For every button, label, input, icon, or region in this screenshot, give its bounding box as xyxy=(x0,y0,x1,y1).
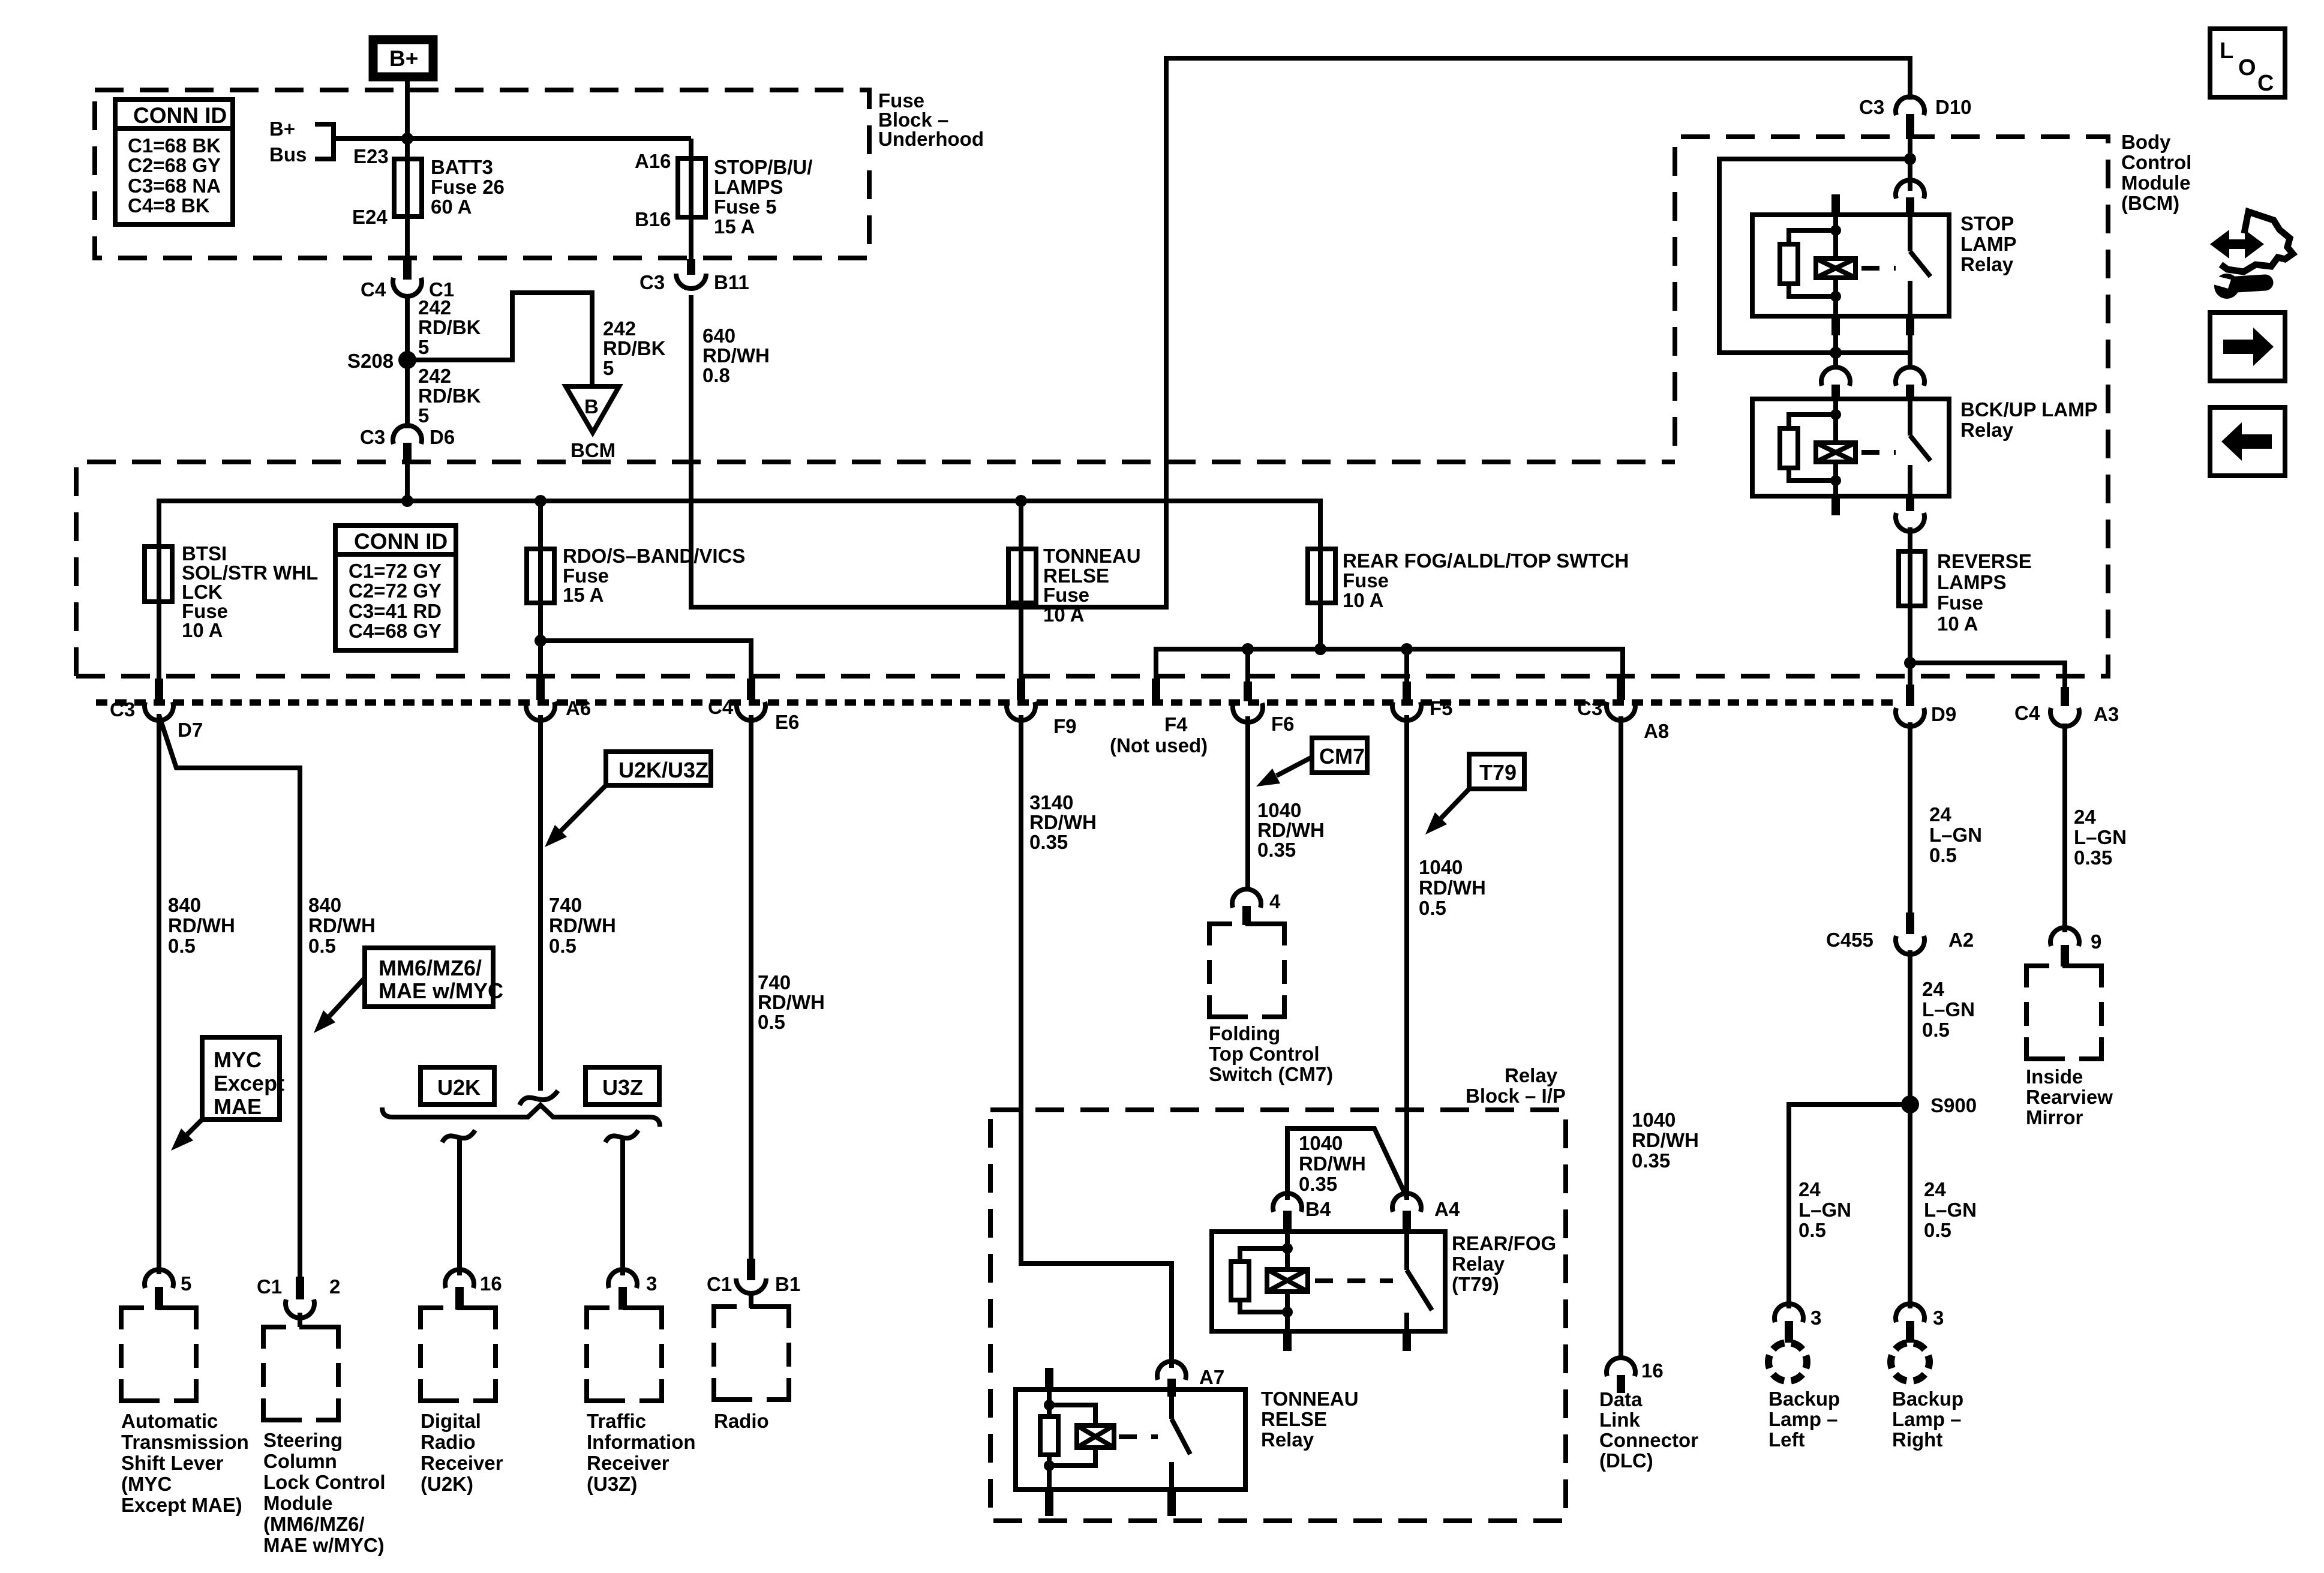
svg-text:1040: 1040 xyxy=(1632,1109,1676,1131)
svg-text:B: B xyxy=(584,395,599,418)
svg-text:1040: 1040 xyxy=(1419,856,1463,878)
svg-text:A4: A4 xyxy=(1434,1198,1460,1220)
svg-text:10 A: 10 A xyxy=(182,619,223,641)
svg-text:1040: 1040 xyxy=(1299,1132,1343,1154)
connector F5 xyxy=(1392,682,1453,721)
svg-text:C455: C455 xyxy=(1826,929,1873,951)
connector D9 xyxy=(1896,685,1956,727)
wire S208 branch to BCM B triangle xyxy=(407,293,592,386)
svg-text:C4: C4 xyxy=(361,278,386,301)
wire coil feed inside xyxy=(1833,399,1838,443)
wire S208 to connector C3/D6 xyxy=(405,360,410,428)
svg-text:0.35: 0.35 xyxy=(1029,831,1068,853)
svg-text:RD/WH: RD/WH xyxy=(1632,1129,1699,1151)
wire resistor bottom xyxy=(1240,1300,1287,1312)
svg-text:RD/WH: RD/WH xyxy=(308,914,376,936)
actuator dashed line xyxy=(1119,1434,1158,1439)
svg-text:Relay: Relay xyxy=(1452,1253,1505,1275)
wire branch F5 to B4 xyxy=(1287,1128,1407,1200)
wire into steering column module xyxy=(298,1313,302,1327)
svg-text:0.5: 0.5 xyxy=(1924,1219,1951,1241)
svg-text:C2=72 GY: C2=72 GY xyxy=(349,580,442,602)
wire BTSI fuse to connector D7 xyxy=(157,501,161,679)
junction coil bottom xyxy=(1830,475,1841,486)
coil (relay TONNEAU) xyxy=(1077,1425,1114,1448)
svg-text:10 A: 10 A xyxy=(1937,613,1978,635)
component Folding Top Control Switch (CM7) dashed box xyxy=(1209,924,1333,1085)
svg-text:MM6/MZ6/: MM6/MZ6/ xyxy=(379,956,482,980)
svg-text:Top Control: Top Control xyxy=(1209,1043,1320,1065)
label 640 RD/WH 0.8 xyxy=(702,325,770,386)
label 740 RD/WH 0.5 (A6 wire) xyxy=(549,894,616,957)
power symbol B+ xyxy=(373,40,433,77)
pin coil bottom xyxy=(1831,496,1840,515)
svg-text:C3: C3 xyxy=(639,271,665,293)
wire TONNEAU fuse down to F9 xyxy=(1019,501,1023,679)
junction loop at BCK/UP coil feed xyxy=(1830,347,1842,359)
svg-text:Steering: Steering xyxy=(263,1429,343,1451)
svg-text:C3: C3 xyxy=(1859,96,1884,118)
svg-text:A2: A2 xyxy=(1948,929,1974,951)
svg-text:MAE w/MYC: MAE w/MYC xyxy=(379,978,503,1003)
callout U2K xyxy=(421,1067,494,1104)
wire D9 to S900 xyxy=(1908,722,1912,914)
svg-text:(MM6/MZ6/: (MM6/MZ6/ xyxy=(263,1513,365,1535)
wire F6 drop xyxy=(1245,649,1250,682)
pin F4 (Not used) xyxy=(1110,679,1208,757)
svg-text:10 A: 10 A xyxy=(1343,589,1383,611)
wire A6 740 down to split xyxy=(538,715,543,1091)
switch (relay TONNEAU) xyxy=(1172,1397,1190,1490)
label 242 RD/BK 5 (branch to BCM) xyxy=(603,317,666,379)
svg-text:F5: F5 xyxy=(1430,697,1453,719)
svg-text:4: 4 xyxy=(1269,890,1281,912)
junction coil top xyxy=(1830,225,1841,236)
svg-text:0.35: 0.35 xyxy=(2074,846,2112,869)
connector B4 xyxy=(1273,1193,1331,1233)
relay TONNEAU RELSE xyxy=(1016,1368,1359,1516)
table CONN ID (I/P fuse block) xyxy=(335,526,456,650)
label 1040 RD/WH 0.35 (DLC wire) xyxy=(1632,1109,1699,1172)
svg-text:Bus: Bus xyxy=(269,143,307,166)
svg-text:Automatic: Automatic xyxy=(121,1410,218,1432)
wire B11 to BCM D10 (long route) xyxy=(691,58,1910,607)
svg-text:Rearview: Rearview xyxy=(2026,1086,2113,1108)
svg-text:Mirror: Mirror xyxy=(2026,1106,2083,1128)
svg-text:242: 242 xyxy=(603,317,636,340)
svg-text:L–GN: L–GN xyxy=(1922,998,1975,1020)
svg-text:Right: Right xyxy=(1892,1428,1942,1451)
svg-text:Radio: Radio xyxy=(421,1431,476,1453)
connector F6 xyxy=(1233,682,1295,735)
svg-text:C4=8 BK: C4=8 BK xyxy=(128,194,210,217)
wire branch to A3 xyxy=(1910,663,2065,687)
svg-text:RD/BK: RD/BK xyxy=(603,337,666,359)
svg-text:RD/WH: RD/WH xyxy=(1257,819,1325,841)
svg-text:STOP: STOP xyxy=(1960,212,2014,235)
label 24 L-GN 0.5 (right lamp) xyxy=(1924,1178,1977,1241)
svg-text:B11: B11 xyxy=(714,271,749,293)
relay BCK/UP LAMP xyxy=(1752,398,2098,515)
fuse REVERSE LAMPS 10A xyxy=(1899,550,2032,635)
wire B+ bus horizontal xyxy=(334,136,691,141)
svg-text:B+: B+ xyxy=(389,46,418,71)
svg-text:F4: F4 xyxy=(1164,713,1188,736)
svg-text:0.5: 0.5 xyxy=(1929,844,1957,866)
connector pin 3 (traffic information receiver) xyxy=(608,1269,657,1310)
label 840 RD/WH 0.5 (left) xyxy=(168,894,235,957)
svg-text:740: 740 xyxy=(758,971,791,993)
svg-text:U2K: U2K xyxy=(437,1075,481,1100)
svg-text:RD/WH: RD/WH xyxy=(1299,1152,1366,1175)
connector C1/2 (steering column lock) xyxy=(257,1275,340,1318)
callout U3Z xyxy=(585,1067,659,1104)
connector C4/C1 xyxy=(361,260,454,301)
svg-text:TONNEAU: TONNEAU xyxy=(1261,1388,1359,1410)
wire F5 to A4 xyxy=(1404,715,1409,1200)
svg-text:Lamp –: Lamp – xyxy=(1768,1408,1838,1430)
wire D6 to power bus xyxy=(405,464,410,501)
svg-text:E6: E6 xyxy=(775,711,799,733)
resistor (BCK/UP LAMP relay) xyxy=(1780,428,1798,468)
callout MYC Except MAE xyxy=(171,1037,284,1151)
svg-text:RDO/S–BAND/VICS: RDO/S–BAND/VICS xyxy=(563,545,745,567)
svg-text:Inside: Inside xyxy=(2026,1065,2083,1088)
svg-text:840: 840 xyxy=(308,894,341,916)
label Fuse Block - Underhood xyxy=(878,89,984,150)
table CONN ID (fuse block underhood) xyxy=(115,100,233,224)
svg-text:STOP/B/U/: STOP/B/U/ xyxy=(714,156,812,178)
svg-text:(T79): (T79) xyxy=(1452,1273,1499,1295)
svg-text:O: O xyxy=(2238,55,2256,80)
resistor (STOP LAMP relay) xyxy=(1780,244,1798,284)
svg-text:Body: Body xyxy=(2121,131,2171,153)
svg-text:C1=72 GY: C1=72 GY xyxy=(349,560,442,582)
svg-text:C3: C3 xyxy=(110,698,135,721)
wire coil bottom loop xyxy=(1049,1448,1095,1466)
svg-text:LAMP: LAMP xyxy=(1960,233,2017,255)
svg-text:9: 9 xyxy=(2091,930,2101,953)
wire branch RDO output to E6 xyxy=(541,641,751,679)
svg-text:Connector: Connector xyxy=(1599,1429,1698,1451)
svg-text:L: L xyxy=(2220,38,2233,64)
svg-text:640: 640 xyxy=(702,325,735,347)
wire S900 to right backup lamp xyxy=(1908,1104,1912,1308)
svg-text:C3: C3 xyxy=(1577,697,1602,719)
connector cup below BCK/UP switch xyxy=(1896,513,1924,532)
svg-text:5: 5 xyxy=(181,1272,191,1295)
svg-text:740: 740 xyxy=(549,894,582,916)
svg-text:F6: F6 xyxy=(1271,713,1295,735)
wire resistor bottom xyxy=(1789,468,1836,481)
component Radio dashed box xyxy=(714,1307,789,1432)
svg-text:3: 3 xyxy=(1810,1307,1821,1329)
label 24 L-GN 0.35 (A3 wire) xyxy=(2074,806,2127,869)
wire D10 into BCM xyxy=(1908,137,1912,191)
label 1040 RD/WH 0.35 (F6 wire) xyxy=(1257,799,1325,861)
svg-text:BCK/UP LAMP: BCK/UP LAMP xyxy=(1960,398,2098,421)
svg-text:Link: Link xyxy=(1599,1409,1640,1431)
wire REVERSE fuse to D9 xyxy=(1908,606,1912,685)
svg-text:RD/WH: RD/WH xyxy=(549,914,616,936)
svg-text:B4: B4 xyxy=(1305,1198,1331,1220)
connector dome BCK/UP coil xyxy=(1821,367,1850,400)
wire to resistor top xyxy=(1240,1248,1287,1262)
svg-text:B16: B16 xyxy=(635,208,671,230)
module box Relay Block - I/P (dashed) xyxy=(990,1110,1566,1521)
pin B4 bottom xyxy=(1283,1331,1292,1351)
svg-text:0.35: 0.35 xyxy=(1257,839,1296,861)
wire resistor bottom xyxy=(1789,284,1836,296)
label 24 L-GN 0.5 (D9 wire) xyxy=(1929,803,1982,866)
svg-text:(U3Z): (U3Z) xyxy=(587,1473,637,1495)
svg-text:0.5: 0.5 xyxy=(1922,1019,1950,1041)
svg-text:REAR/FOG: REAR/FOG xyxy=(1452,1232,1556,1254)
junction coil bottom xyxy=(1044,1460,1055,1471)
wire break squiggle on A6 wire xyxy=(520,1091,558,1105)
wire connector C1 to S208 xyxy=(405,295,410,360)
svg-text:Relay: Relay xyxy=(1960,253,2014,275)
svg-text:3: 3 xyxy=(646,1272,657,1295)
svg-text:A16: A16 xyxy=(635,150,671,172)
wire to resistor xyxy=(1789,415,1836,428)
wire loop around STOP LAMP relay xyxy=(1719,159,1910,353)
junction coil bottom xyxy=(1830,291,1841,302)
dotted connector interface line xyxy=(96,700,1897,706)
junction S208 xyxy=(398,351,416,369)
label 3140 RD/WH 0.35 (F9 wire) xyxy=(1029,791,1097,853)
pin coil bottom xyxy=(1831,316,1840,335)
wire coil feed inside xyxy=(1833,215,1838,259)
svg-text:Traffic: Traffic xyxy=(587,1410,646,1432)
svg-text:Backup: Backup xyxy=(1892,1388,1963,1410)
svg-text:T79: T79 xyxy=(1479,760,1517,785)
svg-text:C: C xyxy=(2257,71,2274,96)
svg-text:24: 24 xyxy=(1798,1178,1821,1200)
coil (STOP LAMP relay) xyxy=(1816,259,1855,278)
wire S900 branch to left backup lamp xyxy=(1789,1104,1910,1308)
icon LOC box xyxy=(2210,29,2285,97)
connector dome STOP relay switch feed xyxy=(1896,180,1924,215)
svg-text:CM7: CM7 xyxy=(1319,744,1365,769)
svg-text:RD/WH: RD/WH xyxy=(702,344,770,367)
svg-text:16: 16 xyxy=(1641,1359,1664,1382)
node B+ Bus label and bracket xyxy=(269,118,334,166)
connector C455/A2 xyxy=(1826,912,1974,954)
svg-text:Fuse: Fuse xyxy=(1937,592,1983,614)
svg-text:E23: E23 xyxy=(353,145,389,167)
svg-text:1040: 1040 xyxy=(1257,799,1301,821)
component Traffic Information Receiver dashed box xyxy=(587,1308,695,1495)
svg-text:RD/WH: RD/WH xyxy=(168,914,235,936)
ground/feed triangle B (BCM) xyxy=(566,386,619,461)
svg-text:CONN ID: CONN ID xyxy=(354,529,448,554)
svg-text:C3=41 RD: C3=41 RD xyxy=(349,600,442,622)
label Body Control Module (BCM) xyxy=(2121,131,2191,214)
svg-text:0.35: 0.35 xyxy=(1299,1173,1337,1195)
svg-text:RD/WH: RD/WH xyxy=(758,991,825,1013)
svg-text:3: 3 xyxy=(1933,1307,1944,1329)
svg-text:Column: Column xyxy=(263,1450,337,1472)
icon arrow right box xyxy=(2210,313,2285,381)
switch (relay T79) xyxy=(1407,1232,1432,1331)
svg-text:Folding: Folding xyxy=(1209,1022,1280,1044)
wire F5 drop xyxy=(1404,649,1409,682)
wire REAR FOG fuse output distribution xyxy=(1318,501,1323,649)
callout CM7 xyxy=(1256,738,1367,786)
junction bus at RDO fuse xyxy=(535,495,547,507)
connector pin 16 (digital radio receiver) xyxy=(445,1269,502,1310)
connector C3/D7 xyxy=(110,679,203,741)
wire switch pin to loop xyxy=(1908,335,1912,353)
svg-text:U3Z: U3Z xyxy=(602,1075,643,1100)
svg-text:Except MAE): Except MAE) xyxy=(121,1494,242,1516)
fuse STOP/B/U/LAMPS Fuse 5 15A xyxy=(678,156,812,238)
svg-text:(U2K): (U2K) xyxy=(421,1473,473,1495)
label 242 RD/BK 5 (below S208) xyxy=(418,365,481,427)
svg-text:D10: D10 xyxy=(1935,96,1972,118)
svg-text:Relay: Relay xyxy=(1261,1428,1314,1451)
svg-text:C4=68 GY: C4=68 GY xyxy=(349,620,442,642)
fuse TONNEAU RELSE 10A xyxy=(1008,545,1141,626)
svg-text:C3: C3 xyxy=(360,426,385,448)
relay REAR/FOG (T79) xyxy=(1212,1232,1556,1351)
connector C3/D6 xyxy=(360,425,455,464)
resistor (relay T79) xyxy=(1231,1262,1249,1300)
svg-text:0.5: 0.5 xyxy=(168,935,196,957)
svg-text:Digital: Digital xyxy=(421,1410,481,1432)
wire coil feed B4 inside relay xyxy=(1285,1232,1290,1269)
svg-text:CONN ID: CONN ID xyxy=(133,103,227,128)
svg-text:Block – I/P: Block – I/P xyxy=(1466,1085,1566,1107)
wire to resistor xyxy=(1789,230,1836,244)
svg-text:RD/WH: RD/WH xyxy=(1029,811,1097,833)
junction F5 drop xyxy=(1401,643,1413,655)
svg-text:MAE: MAE xyxy=(214,1094,262,1119)
svg-text:REVERSE: REVERSE xyxy=(1937,550,2032,572)
connector C1/B1 (radio) xyxy=(707,1259,800,1295)
svg-text:Lock Control: Lock Control xyxy=(263,1471,386,1493)
brace split U2K/U3Z xyxy=(382,1105,660,1127)
connector pin 9 (mirror) xyxy=(2050,927,2101,966)
wire U3Z drop xyxy=(620,1137,625,1275)
svg-text:Backup: Backup xyxy=(1768,1388,1840,1410)
svg-text:U2K/U3Z: U2K/U3Z xyxy=(618,758,708,782)
fuse BATT3 Fuse 26 60A xyxy=(394,156,505,218)
svg-text:60 A: 60 A xyxy=(431,196,472,218)
label 24 L-GN 0.5 (left lamp) xyxy=(1798,1178,1851,1241)
svg-text:Fuse 26: Fuse 26 xyxy=(431,176,505,198)
svg-text:Module: Module xyxy=(2121,172,2190,194)
component Data Link Connector (DLC) label xyxy=(1599,1388,1698,1472)
junction on B+ bus xyxy=(401,133,413,145)
svg-text:RD/WH: RD/WH xyxy=(1419,876,1486,899)
svg-text:Relay: Relay xyxy=(1960,419,2014,441)
svg-text:D9: D9 xyxy=(1931,703,1956,725)
svg-text:24: 24 xyxy=(2074,806,2096,828)
svg-text:REAR FOG/ALDL/TOP SWTCH: REAR FOG/ALDL/TOP SWTCH xyxy=(1343,550,1629,572)
junction reverse lamps branch xyxy=(1904,657,1916,669)
svg-text:840: 840 xyxy=(168,894,201,916)
component Inside Rearview Mirror dashed box xyxy=(2026,966,2113,1128)
connector F9 xyxy=(1007,679,1077,737)
connector dome BCK/UP switch xyxy=(1896,367,1924,400)
callout MM6/MZ6/MAE w/MYC xyxy=(314,948,503,1033)
svg-text:Shift Lever: Shift Lever xyxy=(121,1452,224,1474)
svg-text:Except: Except xyxy=(214,1071,284,1095)
wire coil bottom to pin xyxy=(1833,278,1838,316)
svg-text:5: 5 xyxy=(418,404,429,427)
label 740 RD/WH 0.5 (E6 wire) xyxy=(758,971,825,1033)
svg-text:(MYC: (MYC xyxy=(121,1473,172,1495)
fuse BTSI SOL/STR WHL LCK 10A xyxy=(145,542,318,641)
junction S900 xyxy=(1901,1095,1919,1113)
svg-text:BCM: BCM xyxy=(571,439,615,461)
svg-text:0.5: 0.5 xyxy=(758,1011,785,1033)
svg-text:RELSE: RELSE xyxy=(1261,1408,1327,1430)
svg-text:C1: C1 xyxy=(707,1273,732,1295)
svg-text:242: 242 xyxy=(418,365,451,387)
svg-text:3140: 3140 xyxy=(1029,791,1073,813)
junction D10 loop xyxy=(1904,153,1916,165)
wire into radio xyxy=(749,1295,753,1308)
fuse RDO/S-BAND/VICS 15A xyxy=(527,545,745,606)
svg-text:A7: A7 xyxy=(1199,1366,1224,1388)
svg-text:LAMPS: LAMPS xyxy=(1937,571,2007,593)
connector C4/E6 xyxy=(708,679,799,733)
svg-text:242: 242 xyxy=(418,296,451,319)
pin switch bottom xyxy=(1167,1490,1176,1516)
svg-text:Relay: Relay xyxy=(1505,1064,1558,1086)
connector pin 3 (backup lamp right) xyxy=(1896,1304,1944,1343)
wire coil pin to loop xyxy=(1833,335,1838,353)
svg-text:A3: A3 xyxy=(2094,703,2119,725)
svg-text:0.5: 0.5 xyxy=(308,935,336,957)
svg-text:Control: Control xyxy=(2121,151,2191,173)
svg-text:Transmission: Transmission xyxy=(121,1431,249,1453)
svg-text:E24: E24 xyxy=(352,206,388,228)
connector C3/D10 xyxy=(1859,96,1972,137)
svg-text:Underhood: Underhood xyxy=(878,128,984,150)
wire loop down to BCK/UP relay xyxy=(1833,353,1838,370)
svg-text:C4: C4 xyxy=(708,696,734,718)
callout U2K/U3Z xyxy=(545,752,711,847)
wire power bus inside lower fuse box xyxy=(159,501,1320,549)
svg-text:S208: S208 xyxy=(347,350,394,372)
svg-text:Data: Data xyxy=(1599,1388,1643,1410)
label 1040 RD/WH 0.5 (F5 wire) xyxy=(1419,856,1486,919)
svg-text:5: 5 xyxy=(603,357,614,379)
wire coil feed inside xyxy=(1047,1389,1052,1416)
switch (BCK/UP LAMP relay) xyxy=(1910,399,1930,496)
wire D7 to shift lever (straight down) xyxy=(157,714,161,1274)
svg-text:(BCM): (BCM) xyxy=(2121,192,2179,214)
svg-text:D7: D7 xyxy=(178,719,203,741)
wire U2K drop xyxy=(457,1137,462,1275)
connector pin 3 (backup lamp left) xyxy=(1774,1304,1821,1343)
svg-text:A6: A6 xyxy=(566,697,591,719)
svg-text:Fuse: Fuse xyxy=(1043,584,1089,606)
junction bus at TONNEAU fuse xyxy=(1015,495,1027,507)
wire coil bottom to pin xyxy=(1285,1292,1290,1331)
wire RDO fuse down to A6 xyxy=(538,501,543,679)
module box Fuse Block - Underhood (dashed) xyxy=(95,90,869,258)
label 242 RD/BK 5 (above S208) xyxy=(418,296,481,358)
svg-text:16: 16 xyxy=(480,1272,502,1295)
junction bus at C3/D6 drop xyxy=(401,495,413,507)
connector A4 xyxy=(1392,1193,1460,1233)
wire A8 to DLC xyxy=(1619,716,1623,1359)
